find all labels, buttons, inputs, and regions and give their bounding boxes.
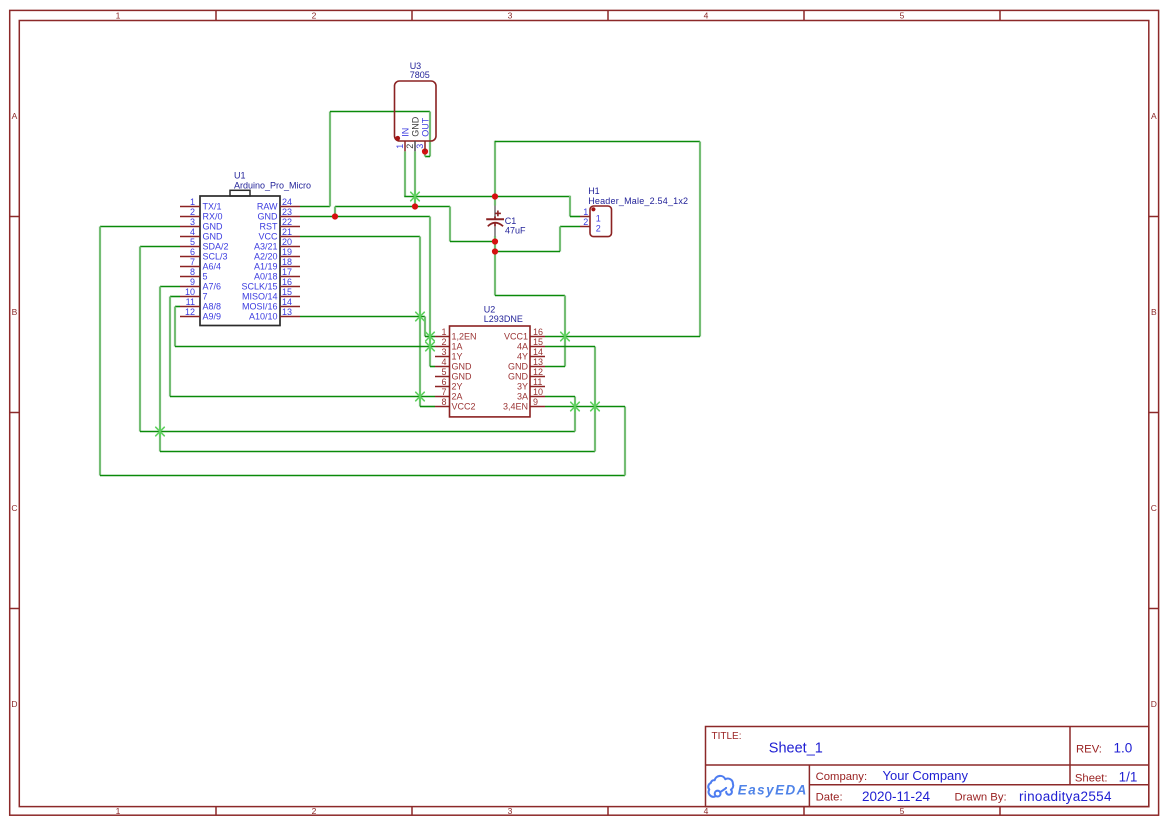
EasyEDA logo cloud icon [708, 776, 733, 797]
U1 pin 13 A10/10 [249, 307, 300, 322]
svg-text:GND: GND [508, 362, 529, 372]
U1 pin 8 5 [180, 267, 208, 282]
wire net RAW: top horizontal [330, 111, 430, 113]
wire net GND: link down to pin23 wire [334, 207, 336, 217]
svg-text:VCC2: VCC2 [452, 402, 476, 412]
U1 pin 4 GND [180, 227, 223, 242]
wire net GND: riser to U2 pin9 [624, 407, 626, 476]
svg-text:3: 3 [508, 10, 513, 20]
U2 pin 14 4Y [517, 347, 545, 362]
svg-text:TX/1: TX/1 [203, 202, 222, 212]
wire net VCC: vertical [419, 237, 421, 407]
svg-text:VCC1: VCC1 [504, 332, 528, 342]
svg-text:3: 3 [190, 217, 195, 227]
U3 pin 2 GND [405, 116, 421, 151]
U2 pin 15 4A [517, 337, 545, 352]
wire net VIN: U3 pin1 down [404, 151, 406, 196]
wire net SDA: riser to U2 pin10 [574, 397, 576, 432]
wire net GND: horizontal to C1 bottom [450, 241, 495, 243]
svg-text:5: 5 [900, 10, 905, 20]
svg-text:22: 22 [282, 217, 292, 227]
wire net A7: riser to U2 pin15 [594, 347, 596, 452]
svg-text:REV:: REV: [1076, 744, 1102, 756]
wire net GND: U3 pin2 down [414, 151, 416, 206]
U1 pin 16 SCLK/15 [241, 277, 300, 292]
svg-text:12: 12 [533, 367, 543, 377]
svg-text:D: D [11, 699, 17, 709]
U2 pin 6 2Y [435, 377, 463, 392]
svg-text:1,2EN: 1,2EN [452, 332, 477, 342]
svg-text:Sheet_1: Sheet_1 [769, 741, 823, 757]
wire net D13: jog down [424, 317, 426, 337]
wire net VIN: into H1 pin1 [570, 216, 580, 218]
U2 pin 10 3A [517, 387, 545, 402]
svg-text:A6/4: A6/4 [203, 262, 222, 272]
U1 pin 14 MOSI/16 [242, 297, 300, 312]
svg-text:A: A [12, 111, 18, 121]
svg-text:3,4EN: 3,4EN [503, 402, 528, 412]
svg-text:7: 7 [203, 292, 208, 302]
svg-text:1: 1 [190, 197, 195, 207]
U1 pin 10 7 [180, 287, 208, 302]
svg-text:7: 7 [441, 387, 446, 397]
U2 pin 11 3Y [517, 377, 545, 392]
wire net SDA: into U2 pin10 3A [545, 396, 575, 398]
wire net RAW: hook down [429, 112, 431, 157]
wire net GND: drop to C1 bottom [449, 207, 451, 242]
svg-text:19: 19 [282, 247, 292, 257]
svg-text:8: 8 [441, 397, 446, 407]
svg-text:A1/19: A1/19 [254, 262, 278, 272]
svg-text:10: 10 [185, 287, 195, 297]
svg-text:3Y: 3Y [517, 382, 528, 392]
svg-text:4A: 4A [517, 342, 528, 352]
U3 pin 1 IN [395, 128, 411, 152]
svg-text:GND: GND [410, 116, 420, 137]
svg-text:4: 4 [441, 357, 446, 367]
junction dot GND at C1 bottom [492, 238, 498, 244]
svg-text:1: 1 [116, 806, 121, 816]
svg-text:VCC: VCC [258, 232, 278, 242]
wire net VCC: U1 pin21 horizontal [300, 236, 420, 238]
wire net GND: U1 pin23 horizontal [300, 216, 430, 218]
svg-text:7: 7 [190, 257, 195, 267]
svg-text:4: 4 [704, 806, 709, 816]
svg-text:C: C [1151, 503, 1157, 513]
svg-text:14: 14 [533, 347, 543, 357]
wire net RAW: vertical up [329, 112, 331, 207]
svg-text:Header_Male_2.54_1x2: Header_Male_2.54_1x2 [588, 196, 688, 206]
voltage regulator U3 7805 body [395, 81, 437, 141]
junction dot GND x U3 pin2 [412, 203, 418, 209]
svg-text:SDA/2: SDA/2 [203, 242, 229, 252]
svg-text:16: 16 [533, 327, 543, 337]
wire net VIN: horizontal to H1 [404, 196, 570, 198]
svg-text:1: 1 [583, 207, 588, 217]
crossing X: GND over A8 wire [426, 341, 435, 351]
IC U1 Arduino_Pro_Micro body [200, 190, 280, 325]
svg-text:17: 17 [282, 267, 292, 277]
crossing X: VCC over D13 wire [416, 311, 425, 321]
svg-text:7805: 7805 [410, 70, 430, 80]
svg-text:1: 1 [395, 144, 405, 149]
wire net A7: vertical [159, 287, 161, 452]
wire net D13: into U2 pin1 1,2EN [425, 336, 435, 338]
svg-text:2A: 2A [452, 392, 463, 402]
U1 pin 1 TX/1 [180, 197, 222, 212]
svg-text:Drawn By:: Drawn By: [955, 792, 1007, 804]
svg-text:MOSI/16: MOSI/16 [242, 302, 278, 312]
svg-text:11: 11 [186, 297, 195, 307]
svg-text:3: 3 [508, 806, 513, 816]
svg-text:GND: GND [203, 222, 224, 232]
svg-text:3A: 3A [517, 392, 528, 402]
svg-text:Arduino_Pro_Micro: Arduino_Pro_Micro [234, 180, 311, 190]
wire net GND: left vertical [99, 227, 101, 476]
svg-text:Date:: Date: [816, 792, 843, 804]
svg-text:3: 3 [441, 347, 446, 357]
capacitor C1 47uF [486, 206, 504, 237]
crossing X: VCC over D7 wire [416, 391, 425, 401]
svg-text:13: 13 [282, 307, 292, 317]
crossing X: A7 over SDA wire [156, 426, 165, 436]
H1 pin 1 [580, 207, 601, 224]
U1 pin 18 A1/19 [254, 257, 300, 272]
svg-text:2: 2 [405, 144, 415, 149]
svg-text:OUT: OUT [420, 117, 430, 137]
svg-text:L293DNE: L293DNE [484, 314, 523, 324]
svg-text:D: D [1151, 699, 1157, 709]
U2 pin 4 GND [435, 357, 472, 372]
wire net SDA: vertical [139, 247, 141, 432]
H1 pin1 orientation dot [591, 207, 595, 211]
svg-text:14: 14 [282, 297, 292, 307]
U1 pin 23 GND [258, 207, 301, 222]
U1 pin 15 MISO/14 [242, 287, 300, 302]
svg-text:B: B [1151, 307, 1157, 317]
wire net SDA: bottom horizontal [140, 431, 575, 433]
svg-text:4: 4 [190, 227, 195, 237]
U2 pin 9 3,4EN [503, 397, 545, 412]
wire net GND: into U2 pin9 3,4EN [545, 406, 625, 408]
wire net GND: U1 pin3 stub [100, 226, 180, 228]
svg-text:2: 2 [441, 337, 446, 347]
junction dot VIN at C1 top [492, 193, 498, 199]
svg-text:9: 9 [533, 397, 538, 407]
wire net A8: into U2 pin2 1A [175, 346, 435, 348]
wire net RAW: hook bottom [425, 156, 430, 158]
wire net GND: bottom loop [100, 475, 625, 477]
U2 pin 2 1A [435, 337, 463, 352]
wire net A7: bottom horizontal [160, 451, 595, 453]
wire net D7: into U2 pin7 2A [170, 396, 435, 398]
U2 pin 1 1,2EN [435, 327, 477, 342]
svg-text:13: 13 [533, 357, 543, 367]
junction dot at U3 pin3 OUT [422, 148, 428, 154]
svg-text:47uF: 47uF [505, 225, 526, 235]
svg-text:A7/6: A7/6 [203, 282, 222, 292]
crossing X: GND over D13 wire [426, 331, 435, 341]
U2 pin 7 2A [435, 387, 463, 402]
svg-text:5: 5 [203, 272, 208, 282]
svg-text:GND: GND [452, 372, 473, 382]
svg-text:1: 1 [596, 214, 601, 224]
svg-text:A3/21: A3/21 [254, 242, 278, 252]
wire net GND: vertical to U2 pin4 [429, 217, 431, 367]
U1 pin 2 RX/0 [180, 207, 223, 222]
svg-text:A0/18: A0/18 [254, 272, 278, 282]
svg-text:2: 2 [583, 217, 588, 227]
U1 pin 5 SDA/2 [180, 237, 229, 252]
U1 pin 19 A2/20 [254, 247, 300, 262]
svg-text:rinoaditya2554: rinoaditya2554 [1019, 789, 1112, 804]
svg-text:RX/0: RX/0 [203, 212, 223, 222]
svg-text:10: 10 [533, 387, 543, 397]
svg-text:GND: GND [452, 362, 473, 372]
svg-text:H1: H1 [588, 186, 600, 196]
title block frame [706, 727, 1149, 807]
junction dot GND on pin23 wire [332, 213, 338, 219]
U1 pin 17 A0/18 [254, 267, 300, 282]
wire net GND: vertical to U2 pin13 [564, 296, 566, 367]
wire net VIN: right loop vertical [699, 142, 701, 337]
svg-text:2: 2 [312, 10, 317, 20]
svg-text:23: 23 [282, 207, 292, 217]
svg-text:5: 5 [441, 367, 446, 377]
junction dot GND below C1 [492, 248, 498, 254]
svg-text:Your Company: Your Company [883, 768, 969, 783]
wire net VCC: into U2 VCC2 pin8 [420, 406, 435, 408]
wire net VIN: top loop horizontal [495, 141, 700, 143]
svg-text:5: 5 [190, 237, 195, 247]
svg-text:GND: GND [258, 212, 279, 222]
wire net GND: H1 pin2 drop [559, 227, 561, 252]
svg-text:6: 6 [190, 247, 195, 257]
svg-text:18: 18 [282, 257, 292, 267]
svg-text:2: 2 [312, 806, 317, 816]
U2 pin 5 GND [435, 367, 472, 382]
wire net GND: horizontal under C1 [495, 295, 565, 297]
svg-text:2: 2 [596, 224, 601, 234]
svg-text:1.0: 1.0 [1114, 741, 1133, 756]
svg-text:RAW: RAW [257, 202, 278, 212]
svg-text:A9/9: A9/9 [203, 312, 222, 322]
wire net GND: C1 bottom run [494, 236, 496, 296]
svg-text:9: 9 [190, 277, 195, 287]
svg-text:8: 8 [190, 267, 195, 277]
svg-text:2020-11-24: 2020-11-24 [862, 789, 931, 804]
svg-text:20: 20 [282, 237, 292, 247]
svg-text:GND: GND [203, 232, 224, 242]
svg-text:1A: 1A [452, 342, 463, 352]
wire net D13: U1 pin13 horizontal [300, 316, 425, 318]
wire net RAW: to U3 pin3 [424, 152, 426, 157]
U2 pin 12 GND [508, 367, 545, 382]
wire net A8: U1 pin11 stub [175, 306, 180, 308]
U3 pin 3 OUT [415, 117, 431, 151]
svg-text:SCLK/15: SCLK/15 [241, 282, 277, 292]
svg-text:1: 1 [116, 10, 121, 20]
U2 pin 3 1Y [435, 347, 463, 362]
svg-text:IN: IN [400, 128, 410, 137]
svg-text:15: 15 [533, 337, 543, 347]
svg-text:MISO/14: MISO/14 [242, 292, 278, 302]
wire net GND: H1 pin2 stub [560, 226, 580, 228]
connector H1 Header_Male_2.54_1x2 body [590, 206, 612, 237]
wire net A7: into U2 pin15 4A [545, 346, 595, 348]
U1 pin 7 A6/4 [180, 257, 221, 272]
H1 pin 2 [580, 217, 601, 234]
svg-text:24: 24 [282, 197, 292, 207]
svg-text:A: A [1151, 111, 1157, 121]
svg-text:16: 16 [282, 277, 292, 287]
U1 pin 6 SCL/3 [180, 247, 228, 262]
U2 pin 16 VCC1 [504, 327, 545, 342]
svg-text:U1: U1 [234, 171, 246, 181]
wire net VIN: into U2 VCC1 pin16 [545, 336, 700, 338]
U3 pin1 orientation dot [395, 136, 400, 141]
U1 pin 9 A7/6 [180, 277, 221, 292]
C1 polarity plus sign [495, 211, 501, 217]
IC U2 L293DNE body [450, 326, 531, 417]
svg-text:Sheet:: Sheet: [1075, 772, 1108, 784]
svg-text:TITLE:: TITLE: [712, 731, 742, 742]
svg-text:6: 6 [441, 377, 446, 387]
svg-text:5: 5 [900, 806, 905, 816]
svg-text:EasyEDA: EasyEDA [738, 782, 808, 797]
wire net SDA: U1 pin5 stub [140, 246, 180, 248]
svg-text:A8/8: A8/8 [203, 302, 222, 312]
U1 pin 3 GND [180, 217, 223, 232]
svg-text:1Y: 1Y [452, 352, 463, 362]
crossing X: SDA over GND wire [571, 401, 580, 411]
U2 pin 8 VCC2 [435, 397, 476, 412]
wire net D7: U1 pin10 stub [170, 296, 180, 298]
U1 pin 12 A9/9 [180, 307, 221, 322]
crossing X: A7 over GND wire [591, 401, 600, 411]
svg-text:15: 15 [282, 287, 292, 297]
wire net GND: horizontal bus [335, 206, 450, 208]
svg-text:A10/10: A10/10 [249, 312, 278, 322]
wire net VIN: C1 top riser [494, 141, 496, 206]
wire net GND: into U2 pin4 [430, 366, 435, 368]
U1 pin 24 RAW [257, 197, 300, 212]
svg-text:GND: GND [508, 372, 529, 382]
wire net GND: into U2 pin13 [545, 366, 565, 368]
svg-text:B: B [12, 307, 18, 317]
U1 pin 11 A8/8 [180, 297, 221, 312]
U1 pin 21 VCC [258, 227, 300, 242]
U2 pin 13 GND [508, 357, 545, 372]
svg-text:A2/20: A2/20 [254, 252, 278, 262]
svg-text:C: C [11, 503, 17, 513]
svg-text:Company:: Company: [816, 771, 868, 783]
crossing X: U3 GND over VIN wire [411, 191, 420, 201]
wire net A7: U1 pin9 stub [160, 286, 180, 288]
wire net GND: H1 pin2 to C1 [495, 251, 560, 253]
wire net A8: vertical [174, 307, 176, 347]
svg-text:2Y: 2Y [452, 382, 463, 392]
svg-text:11: 11 [533, 377, 542, 387]
svg-text:12: 12 [185, 307, 195, 317]
svg-text:1: 1 [441, 327, 446, 337]
wire net VIN: H1 pin1 riser [569, 196, 571, 217]
svg-text:RST: RST [260, 222, 279, 232]
U1 pin 22 RST [260, 217, 301, 232]
svg-text:4: 4 [704, 10, 709, 20]
svg-text:2: 2 [190, 207, 195, 217]
svg-text:3: 3 [415, 144, 425, 149]
crossing X: GND over VCC1 wire [561, 331, 570, 341]
svg-text:4Y: 4Y [517, 352, 528, 362]
wire net RAW: U1 pin24 stub [300, 206, 330, 208]
U1 pin 20 A3/21 [254, 237, 300, 252]
svg-text:1/1: 1/1 [1119, 769, 1138, 784]
svg-text:U2: U2 [484, 304, 496, 314]
svg-text:SCL/3: SCL/3 [203, 252, 228, 262]
svg-text:21: 21 [282, 227, 292, 237]
wire net D7: vertical [169, 297, 171, 397]
